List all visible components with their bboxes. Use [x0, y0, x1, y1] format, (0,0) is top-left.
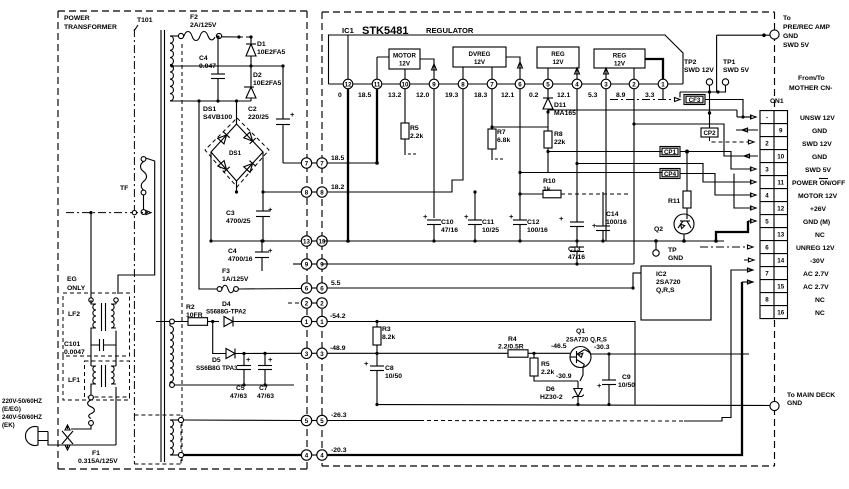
wire gnd rail left segment: [211, 240, 301, 242]
svg-text:HZ30-2: HZ30-2: [540, 394, 563, 401]
svg-text:R10: R10: [543, 178, 556, 185]
svg-text:REGULATOR: REGULATOR: [426, 26, 474, 35]
svg-text:7: 7: [765, 271, 769, 278]
svg-text:13: 13: [777, 232, 784, 239]
bottom rail to MAIN DECK GND: [377, 405, 770, 406]
svg-text:CP4: CP4: [664, 171, 677, 178]
svg-text:14: 14: [777, 258, 784, 265]
svg-text:8: 8: [765, 297, 769, 304]
svg-text:1: 1: [305, 319, 309, 326]
pin 1: [658, 79, 668, 89]
svg-text:+: +: [597, 381, 602, 390]
check point CF3: [610, 89, 743, 117]
wire pin9 down to C10: [433, 89, 435, 218]
svg-text:+: +: [364, 359, 369, 368]
svg-text:-: -: [766, 115, 768, 122]
rail -20.3 (thick): [327, 280, 753, 455]
wire pin4 down to C13a: [576, 89, 578, 222]
svg-text:1A/125V: 1A/125V: [222, 276, 249, 283]
pin pair 5: [307, 420, 317, 422]
svg-text:4: 4: [320, 453, 324, 460]
pin pair 1: [307, 321, 317, 323]
svg-text:3: 3: [765, 167, 769, 174]
check point CP1: [660, 147, 756, 172]
GND(M) thick feed: [716, 219, 756, 241]
svg-text:10E2FA5: 10E2FA5: [257, 49, 286, 56]
svg-text:-54.2: -54.2: [330, 313, 346, 320]
svg-text:C7: C7: [259, 385, 268, 392]
svg-text:0: 0: [338, 92, 342, 99]
svg-text:7: 7: [490, 82, 494, 89]
svg-text:MOTOR: MOTOR: [393, 53, 416, 60]
svg-text:10: 10: [777, 154, 784, 161]
transformer shield dashed line: [181, 44, 183, 464]
rail -48.9: [327, 352, 508, 354]
svg-text:7: 7: [320, 161, 324, 168]
IC pins row: [343, 79, 668, 89]
wire 18.5 rail left segment: [283, 162, 301, 164]
svg-text:-30V: -30V: [810, 258, 825, 265]
pin pair 9: [307, 263, 317, 265]
5.5 rail into IC2 redrawn over box: [633, 272, 641, 274]
rail -54.2: [327, 320, 635, 405]
capacitor C10 47/16: [423, 212, 458, 243]
svg-text:+: +: [268, 246, 273, 255]
svg-text:16: 16: [777, 310, 784, 317]
svg-text:GND (M): GND (M): [803, 219, 830, 226]
check point CP4: [660, 169, 756, 198]
zener D6 HZ30-2: [540, 381, 584, 406]
svg-text:12.1: 12.1: [557, 92, 570, 99]
svg-text:D5: D5: [212, 357, 221, 364]
svg-text:CF3: CF3: [689, 97, 701, 104]
svg-text:2: 2: [632, 82, 636, 89]
fuse F2 2A/125V: [170, 14, 253, 41]
pin pair 7: [307, 162, 317, 164]
wire pin3 down: [605, 89, 607, 241]
svg-text:4700/25: 4700/25: [226, 218, 251, 225]
svg-text:2: 2: [765, 141, 769, 148]
transformer winding (bottom, AC 2.7V): [170, 420, 181, 455]
svg-text:5.5: 5.5: [331, 280, 341, 287]
svg-text:C4: C4: [199, 55, 208, 62]
capacitor C14 100/16: [592, 192, 627, 243]
wire pin2 left stub: [288, 302, 301, 304]
connector pin numbers: [765, 115, 784, 317]
svg-text:REG: REG: [613, 53, 627, 60]
svg-text:8: 8: [461, 82, 465, 89]
svg-text:6: 6: [518, 82, 522, 89]
svg-text:100/16: 100/16: [606, 219, 627, 226]
row1 feed: [737, 110, 756, 119]
capacitor C9 10/50: [597, 374, 635, 406]
pin 8: [458, 79, 468, 89]
transistor Q1 2SA720: [551, 328, 610, 368]
svg-text:+26V: +26V: [810, 206, 827, 213]
svg-text:1: 1: [661, 82, 665, 89]
connector CN1: [760, 98, 788, 319]
svg-text:4: 4: [765, 193, 769, 200]
svg-text:C14: C14: [606, 211, 619, 218]
pin 4: [572, 79, 582, 89]
svg-text:F3: F3: [222, 268, 230, 275]
diode D5 SS6B8G TPA3: [196, 322, 301, 373]
collector rail: [607, 352, 749, 355]
svg-text:S5688G-TPA2: S5688G-TPA2: [206, 309, 247, 316]
thermal fuse TF: [118, 157, 155, 294]
wire pin2 down to bus2: [632, 89, 635, 264]
dashed primary box: [134, 415, 181, 464]
svg-text:2: 2: [320, 301, 324, 308]
svg-text:To MAIN DECK: To MAIN DECK: [787, 392, 835, 399]
svg-text:8: 8: [305, 190, 309, 197]
power transformer dashed enclosure: [58, 11, 307, 469]
svg-text:12V: 12V: [474, 59, 486, 66]
svg-text:-20.3: -20.3: [331, 447, 347, 454]
capacitor C12 100/16: [509, 212, 548, 243]
svg-text:Q1: Q1: [576, 328, 585, 335]
svg-text:(E/EG): (E/EG): [2, 406, 21, 413]
svg-text:CP1: CP1: [664, 149, 677, 156]
svg-text:47/63: 47/63: [230, 393, 247, 400]
svg-text:+: +: [246, 355, 251, 364]
capacitor C4 0.047: [199, 37, 225, 101]
svg-text:-30.9: -30.9: [556, 373, 572, 380]
rail to CP1: [548, 151, 662, 153]
diode D2 10E2FA5: [244, 66, 282, 101]
line filter LF2: [68, 213, 118, 331]
svg-text:0.315A/125V: 0.315A/125V: [78, 458, 118, 465]
transformer winding (middle): [170, 322, 173, 386]
transistor Q2: [654, 214, 694, 243]
svg-text:GND: GND: [812, 128, 827, 135]
svg-text:3.3: 3.3: [645, 92, 655, 99]
pin pair 8: [307, 191, 317, 193]
svg-text:2.2k: 2.2k: [541, 369, 554, 376]
transformer secondary winding (top): [170, 36, 173, 101]
svg-text:D1: D1: [257, 41, 266, 48]
svg-text:18.2: 18.2: [331, 184, 344, 191]
svg-text:LF2: LF2: [68, 311, 80, 318]
TP tie line: [680, 90, 726, 97]
diode D1 10E2FA5: [246, 37, 286, 66]
svg-text:EG: EG: [67, 276, 77, 283]
collector line and C9: [608, 354, 610, 380]
svg-text:0.0047: 0.0047: [64, 349, 85, 356]
svg-text:5: 5: [765, 219, 769, 226]
block REG 12V (second): [594, 49, 663, 79]
pin 11: [372, 79, 382, 89]
svg-text:R8: R8: [554, 131, 563, 138]
svg-text:IC2: IC2: [656, 271, 667, 278]
svg-text:11: 11: [374, 82, 381, 89]
svg-text:47/16: 47/16: [441, 227, 458, 234]
block MOTOR 12V: [377, 49, 437, 79]
svg-text:4: 4: [575, 82, 579, 89]
T101 label and boundary dash-dot line: [134, 17, 153, 464]
svg-text:T101: T101: [137, 17, 153, 24]
svg-text:TP: TP: [668, 247, 677, 254]
diode D11 MA165: [543, 89, 576, 131]
svg-text:R7: R7: [497, 129, 506, 136]
resistor R4 2.2/0.5R: [498, 336, 570, 357]
wire AC 2.7V lower to pin4 (thick): [184, 454, 301, 456]
wire middle tap y=66: [170, 64, 285, 67]
label POWER TRANSFORMER: [64, 15, 117, 31]
svg-text:C12: C12: [527, 219, 540, 226]
LF1 dashed box: [85, 361, 130, 397]
svg-text:DVREG: DVREG: [468, 51, 490, 58]
svg-text:3: 3: [320, 351, 324, 358]
svg-text:1: 1: [320, 319, 324, 326]
AC plug: [25, 427, 116, 449]
svg-text:220V-50/60HZ: 220V-50/60HZ: [2, 398, 42, 405]
rail to CP4: [518, 171, 662, 174]
svg-text:-26.3: -26.3: [331, 412, 347, 419]
svg-text:12V: 12V: [552, 59, 564, 66]
rail D11 to row1: [548, 109, 737, 111]
connector labels: [792, 115, 845, 317]
capacitor C5 47/63: [230, 352, 251, 400]
transformer T101 core: [161, 30, 165, 462]
svg-text:8.9: 8.9: [616, 92, 626, 99]
svg-text:UNREG 12V: UNREG 12V: [796, 245, 835, 252]
svg-text:AC 2.7V: AC 2.7V: [803, 284, 829, 291]
capacitor C13a: [559, 214, 584, 243]
wire to R2 from winding: [156, 319, 188, 324]
svg-text:GND: GND: [783, 33, 798, 40]
mains voltage labels: [2, 398, 42, 429]
dash-dot mains line: [66, 210, 151, 214]
svg-text:13.2: 13.2: [388, 92, 401, 99]
EG ONLY label: [67, 276, 86, 292]
svg-text:NC: NC: [815, 297, 825, 304]
capacitor C4b 4700/16: [228, 239, 273, 271]
pin 12: [343, 79, 353, 89]
svg-text:10/25: 10/25: [482, 227, 499, 234]
svg-text:12: 12: [345, 82, 352, 89]
pin 2: [629, 79, 639, 89]
svg-text:6: 6: [320, 286, 324, 293]
svg-text:GND: GND: [812, 154, 827, 161]
pin pair 4: [307, 454, 317, 456]
DS1 output wires: [209, 152, 264, 243]
svg-text:C4: C4: [228, 248, 237, 255]
svg-text:PRE/REC AMP: PRE/REC AMP: [783, 24, 830, 31]
svg-text:19.3: 19.3: [445, 92, 458, 99]
svg-text:5: 5: [320, 418, 324, 425]
svg-text:SS6B8G TPA3: SS6B8G TPA3: [196, 365, 238, 372]
svg-text:GND: GND: [668, 255, 683, 262]
resistor R11: [668, 152, 691, 215]
svg-text:POWER ON/OFF: POWER ON/OFF: [792, 180, 845, 187]
svg-text:R4: R4: [508, 336, 517, 343]
row8 feed: [734, 174, 756, 211]
op-amp/IC outline STK5481: [329, 35, 684, 84]
bridge rectifier DS1 S4VB100: [203, 101, 269, 187]
svg-text:220/25: 220/25: [248, 114, 269, 121]
svg-text:D2: D2: [253, 72, 262, 79]
svg-text:POWER: POWER: [64, 15, 90, 22]
svg-text:18.3: 18.3: [474, 92, 487, 99]
svg-text:-30.3: -30.3: [594, 344, 610, 351]
pin 7: [487, 79, 497, 89]
pin pair 6: [307, 287, 317, 289]
5.5V rail: [327, 273, 641, 290]
svg-text:2: 2: [305, 301, 309, 308]
svg-text:AC 2.7V: AC 2.7V: [803, 271, 829, 278]
svg-text:Q2: Q2: [654, 226, 663, 233]
svg-text:2SA720: 2SA720: [656, 279, 681, 286]
svg-text:MOTOR 12V: MOTOR 12V: [798, 193, 838, 200]
ground bus: [322, 239, 724, 243]
svg-text:C10: C10: [441, 219, 454, 226]
capacitor C3 4700/25: [226, 205, 273, 241]
resistor R7 6.8k: [488, 89, 548, 160]
svg-text:From/To: From/To: [798, 75, 825, 82]
wire pin6 down: [519, 89, 521, 220]
test point TP GND: [653, 239, 683, 262]
svg-text:S4VB100: S4VB100: [203, 114, 232, 121]
capacitor C2 220/25: [248, 66, 295, 163]
svg-text:F1: F1: [92, 450, 100, 457]
svg-text:10/50: 10/50: [385, 373, 402, 380]
rail -26.3: [327, 268, 753, 421]
svg-text:13: 13: [319, 239, 326, 246]
svg-text:9: 9: [305, 262, 309, 269]
svg-text:DS1: DS1: [229, 150, 242, 157]
wire pin11 to 18.5 rail (bold): [375, 89, 379, 165]
svg-text:6.8k: 6.8k: [497, 137, 510, 144]
svg-text:5: 5: [305, 418, 309, 425]
svg-text:SWD 5V: SWD 5V: [723, 67, 750, 74]
svg-text:9: 9: [320, 262, 324, 269]
svg-text:11: 11: [777, 180, 784, 187]
IC1 STK5481 REGULATOR title: [342, 25, 474, 37]
pin 5: [543, 79, 553, 89]
pin 9: [429, 79, 439, 89]
svg-text:CN1: CN1: [770, 98, 784, 105]
svg-text:MA165: MA165: [554, 110, 576, 117]
svg-text:2SA720 Q,R,S: 2SA720 Q,R,S: [566, 337, 607, 344]
wire AC 2.7V upper to pin5: [184, 419, 301, 422]
svg-text:R5: R5: [541, 361, 550, 368]
wire 18.2 rail left segment: [263, 191, 301, 193]
svg-text:DS1: DS1: [203, 106, 216, 113]
svg-text:To: To: [783, 15, 791, 22]
bus2 (pin9): [322, 263, 634, 265]
svg-text:(EK): (EK): [2, 422, 15, 429]
test point TP2 SWD 12V: [684, 59, 714, 92]
pin 3: [601, 79, 611, 89]
capacitor C101 0.0047: [64, 331, 116, 356]
svg-text:22k: 22k: [554, 139, 566, 146]
resistor R5b 2.2k: [530, 352, 583, 381]
svg-text:6: 6: [305, 286, 309, 293]
svg-text:MOTHER CN-: MOTHER CN-: [789, 85, 832, 92]
svg-text:R5: R5: [410, 125, 419, 132]
svg-text:LF1: LF1: [68, 377, 80, 384]
fuse F3 1A/125V: [199, 101, 301, 293]
svg-text:IC1: IC1: [342, 26, 355, 35]
svg-text:D6: D6: [546, 386, 555, 393]
svg-text:Q,R,S: Q,R,S: [656, 287, 675, 294]
svg-text:SWD 5V: SWD 5V: [805, 167, 832, 174]
wire bottom tap y=101: [170, 99, 251, 102]
svg-text:NC: NC: [815, 232, 825, 239]
svg-text:5.3: 5.3: [588, 92, 598, 99]
svg-text:13: 13: [303, 239, 310, 246]
18.2 rail to pin8: [327, 89, 463, 192]
block REG 12V (first): [537, 47, 580, 79]
svg-text:TRANSFORMER: TRANSFORMER: [64, 24, 117, 31]
mains wire up right side: [115, 387, 117, 445]
GND mesh rows 2/4: [634, 124, 758, 158]
pin 6: [515, 79, 525, 89]
svg-text:TP1: TP1: [723, 59, 736, 66]
capacitor C11 10/25: [464, 190, 499, 242]
svg-text:SWD 5V: SWD 5V: [783, 42, 810, 49]
svg-text:47/63: 47/63: [257, 393, 274, 400]
svg-text:5: 5: [546, 82, 550, 89]
svg-text:100/16: 100/16: [527, 227, 548, 234]
capacitor C8 10/50: [364, 359, 402, 406]
resistor R3 8.2k: [373, 322, 395, 367]
wire pin12 ground (bold): [346, 89, 350, 243]
resistor R2 10FR: [186, 304, 219, 325]
test point TP1 SWD 5V: [722, 59, 749, 92]
resistor R10 1k: [518, 178, 630, 198]
pin pair 2: [307, 302, 317, 304]
line filter LF1: [68, 345, 116, 387]
EG dashed box (LF2/C101): [63, 293, 130, 356]
svg-text:+: +: [268, 355, 273, 364]
svg-text:18.5: 18.5: [358, 92, 371, 99]
svg-text:4: 4: [305, 453, 309, 460]
pin pair 3: [307, 352, 317, 354]
svg-text:C2: C2: [248, 106, 257, 113]
main board dashed enclosure: [322, 12, 775, 466]
wire bus2 left stub: [293, 263, 301, 265]
bottom return wire: [170, 383, 294, 388]
svg-text:+: +: [559, 214, 564, 223]
svg-text:TP2: TP2: [684, 59, 697, 66]
diode D4 S5688G-TPA2: [206, 301, 301, 327]
capacitor C7 47/63: [257, 352, 274, 400]
svg-text:UNSW 12V: UNSW 12V: [800, 115, 835, 122]
svg-text:C11: C11: [482, 219, 494, 226]
fuse F1 0.315A/125V: [71, 386, 118, 465]
svg-text:4700/16: 4700/16: [228, 256, 253, 263]
svg-text:12: 12: [777, 206, 784, 213]
svg-text:8.2k: 8.2k: [382, 334, 395, 341]
18.5 rail: [327, 162, 377, 164]
svg-text:1k: 1k: [543, 186, 551, 193]
resistor R5 2.2k: [401, 89, 423, 155]
svg-text:TF: TF: [120, 185, 128, 192]
node To PRE/REC AMP: [717, 15, 831, 92]
svg-text:12.0: 12.0: [416, 92, 429, 99]
svg-text:2.2k: 2.2k: [410, 133, 423, 140]
svg-text:D11: D11: [554, 102, 566, 109]
svg-text:SWD 12V: SWD 12V: [684, 67, 714, 74]
svg-text:240V-50/60HZ: 240V-50/60HZ: [2, 414, 42, 421]
svg-text:10/50: 10/50: [618, 382, 635, 389]
pin pair 13: [307, 240, 317, 242]
svg-text:12.1: 12.1: [501, 92, 514, 99]
svg-text:12V: 12V: [614, 61, 626, 68]
svg-text:18.5: 18.5: [331, 155, 344, 162]
